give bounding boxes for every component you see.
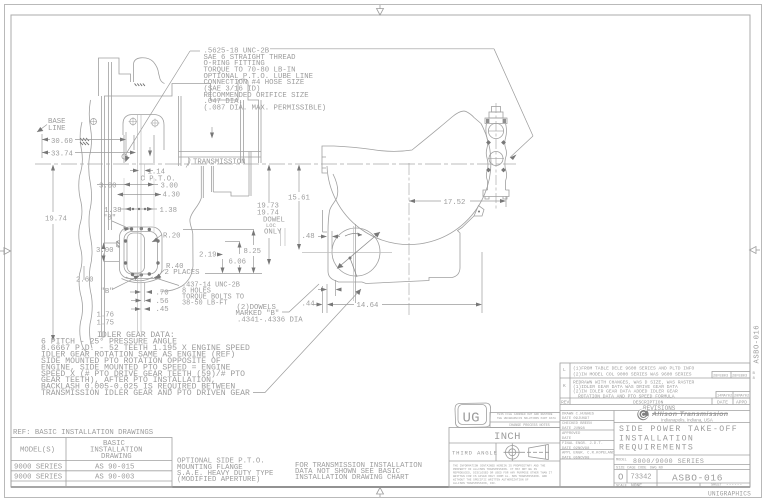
svg-text:MODEL(S): MODEL(S) <box>20 447 55 455</box>
svg-text:(2)IN MODEL COL 9000 SERIES WA: (2)IN MODEL COL 9000 SERIES WAS 9600 SER… <box>573 372 692 378</box>
svg-text:14.64: 14.64 <box>357 302 380 310</box>
svg-text:8: 8 <box>753 377 756 381</box>
svg-text:38-50 LB-FT: 38-50 LB-FT <box>182 300 228 308</box>
svg-text:THIRD ANGLE: THIRD ANGLE <box>452 450 498 457</box>
svg-text:INSTALLATION DRAWING CHART: INSTALLATION DRAWING CHART <box>295 474 409 482</box>
svg-text:AS 90-003: AS 90-003 <box>95 474 134 482</box>
svg-text:DRAWING: DRAWING <box>101 453 132 461</box>
svg-text:DWG NO: DWG NO <box>650 467 663 471</box>
svg-text:.70: .70 <box>156 290 169 298</box>
svg-text:19.74: 19.74 <box>45 216 68 224</box>
svg-text:APPD: APPD <box>736 400 747 406</box>
svg-text:UG: UG <box>463 410 480 426</box>
svg-text:TRANSMISSION: TRANSMISSION <box>193 158 246 166</box>
svg-text:MODEL: MODEL <box>616 459 627 463</box>
svg-text:3.00: 3.00 <box>161 183 179 191</box>
svg-text:15.61: 15.61 <box>288 195 311 203</box>
svg-text:ASBO-016: ASBO-016 <box>672 473 723 484</box>
svg-text:SIZE: SIZE <box>616 467 625 471</box>
svg-text:APPROVED: APPROVED <box>562 432 581 436</box>
svg-text:ROTATION DATA AND PTO SPEED FO: ROTATION DATA AND PTO SPEED FORMULA <box>578 393 675 399</box>
svg-text:.44: .44 <box>302 301 316 309</box>
svg-text:9000 SERIES: 9000 SERIES <box>14 474 63 482</box>
svg-text:17.52: 17.52 <box>444 199 466 207</box>
svg-text:ONLY: ONLY <box>264 229 282 237</box>
svg-text:"B": "B" <box>101 288 114 296</box>
svg-text:NONE: NONE <box>631 483 642 489</box>
svg-text:1.38: 1.38 <box>160 207 178 215</box>
svg-text:REV: REV <box>561 400 570 406</box>
svg-text:L: L <box>563 367 566 373</box>
svg-text:DATE 02NOV98: DATE 02NOV98 <box>562 447 590 451</box>
svg-text:DATE: DATE <box>562 437 572 441</box>
svg-text:K: K <box>563 383 566 389</box>
svg-text:14MAY02: 14MAY02 <box>717 395 732 399</box>
svg-text:3.00: 3.00 <box>96 247 114 255</box>
svg-text:REF: BASIC INSTALLATION DRAWIN: REF: BASIC INSTALLATION DRAWINGS <box>13 429 154 437</box>
svg-text:1.76: 1.76 <box>97 312 115 320</box>
svg-text:33.74: 33.74 <box>51 151 74 159</box>
svg-text:DRAWN C.HUGHES: DRAWN C.HUGHES <box>562 413 595 417</box>
svg-text:CHANGE PROCESS NOTES: CHANGE PROCESS NOTES <box>509 424 550 428</box>
svg-text:UNIGRAPHICS: UNIGRAPHICS <box>708 491 751 498</box>
svg-text:.45: .45 <box>156 306 169 314</box>
svg-text:"B": "B" <box>103 215 116 223</box>
svg-text:2 PLACES: 2 PLACES <box>165 269 201 277</box>
svg-text:AS 90-015: AS 90-015 <box>95 464 134 472</box>
svg-text:.56: .56 <box>156 298 169 306</box>
svg-text:6.06: 6.06 <box>229 259 247 267</box>
svg-text:ASBO-016: ASBO-016 <box>754 325 762 364</box>
svg-text:INCH: INCH <box>494 431 521 443</box>
svg-text:O: O <box>618 473 623 483</box>
svg-text:B: B <box>753 372 756 376</box>
svg-text:THIS FILE CARRIED OUT AND REST: THIS FILE CARRIED OUT AND RESTORE <box>497 413 553 416</box>
svg-text:30.60: 30.60 <box>51 138 73 146</box>
svg-text:2.19: 2.19 <box>199 252 217 260</box>
svg-text:CHECKED BREEN: CHECKED BREEN <box>562 422 592 426</box>
svg-text:.48: .48 <box>302 233 315 241</box>
svg-text:28FEB03: 28FEB03 <box>713 375 728 379</box>
svg-text:SIDE POWER TAKE-OFF: SIDE POWER TAKE-OFF <box>619 425 738 434</box>
svg-text:LINE: LINE <box>48 125 66 133</box>
svg-text:DATE 09JUN97: DATE 09JUN97 <box>562 417 589 421</box>
svg-text:2.60: 2.60 <box>76 277 94 285</box>
svg-text:TRANSMISSION IDLER GEAR AND PT: TRANSMISSION IDLER GEAR AND PTO DRIVEN G… <box>41 389 250 398</box>
svg-text:1.75: 1.75 <box>97 320 115 328</box>
svg-text:28FEB03: 28FEB03 <box>732 375 747 379</box>
svg-text:8.25: 8.25 <box>244 248 262 256</box>
svg-text:20MAY02: 20MAY02 <box>734 395 749 399</box>
svg-text:DATE 05NOV98: DATE 05NOV98 <box>562 456 590 460</box>
svg-text:REQUIREMENTS: REQUIREMENTS <box>619 444 694 453</box>
svg-text:INSTALLATION: INSTALLATION <box>619 435 694 444</box>
svg-text:CAGE CODE: CAGE CODE <box>627 467 646 471</box>
svg-text:ALLISON TRANSMISSION, INC.: ALLISON TRANSMISSION, INC. <box>453 482 497 485</box>
svg-text:SHEET: SHEET <box>711 484 723 488</box>
svg-text:4.30: 4.30 <box>163 192 181 200</box>
svg-text:DATE: DATE <box>717 400 728 406</box>
svg-text:9000 SERIES: 9000 SERIES <box>14 464 63 472</box>
svg-text:73342: 73342 <box>631 474 652 482</box>
svg-text:DATE JUN98: DATE JUN98 <box>562 427 586 431</box>
svg-text:APPL ENGR. C.R.KOPELAND: APPL ENGR. C.R.KOPELAND <box>562 452 615 456</box>
svg-text:------: ------ <box>726 483 742 488</box>
svg-text:R.20: R.20 <box>163 233 181 241</box>
svg-text:8000/9000 SERIES: 8000/9000 SERIES <box>633 458 704 465</box>
svg-text:3.00: 3.00 <box>99 183 117 191</box>
svg-text:THE UNIGRAPHICS SOLUTIONS PART: THE UNIGRAPHICS SOLUTIONS PART DATA <box>497 417 556 420</box>
svg-text:(MODIFIED APERTURE): (MODIFIED APERTURE) <box>177 476 260 484</box>
svg-text:FINAL ENGR. J.D.T.: FINAL ENGR. J.D.T. <box>562 442 603 446</box>
svg-text:SCALE: SCALE <box>616 485 627 489</box>
svg-text:.4341-.4336 DIA: .4341-.4336 DIA <box>237 317 303 325</box>
svg-text:Indianapolis, Indiana, USA: Indianapolis, Indiana, USA <box>661 418 713 423</box>
svg-text:(1)FROM TABLE DELE 9600 SERIES: (1)FROM TABLE DELE 9600 SERIES AND PLTD … <box>573 366 695 372</box>
svg-text:(.087 DIA. MAX. PERMISSIBLE): (.087 DIA. MAX. PERMISSIBLE) <box>204 105 327 113</box>
